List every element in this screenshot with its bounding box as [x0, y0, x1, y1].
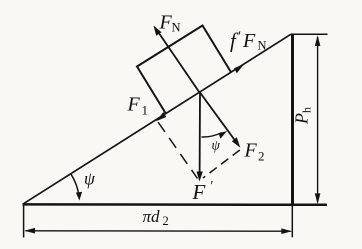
triangle base: [23, 203, 328, 206]
block on incline: [137, 26, 231, 114]
svg-text:F: F: [159, 12, 173, 34]
top extension line: [291, 33, 328, 35]
left extension line: [23, 203, 25, 238]
svg-text:N: N: [258, 39, 267, 53]
force F_N arrow: [154, 26, 200, 93]
force F' arrow (vertical down): [197, 93, 203, 182]
svg-text:h: h: [300, 107, 314, 113]
svg-text:1: 1: [142, 103, 149, 118]
svg-text:F: F: [127, 94, 141, 116]
friction force f'F_N arrowhead on incline: [234, 64, 244, 73]
svg-text:F: F: [242, 30, 256, 52]
force F1 arrowhead on incline (down-left): [156, 112, 166, 121]
dimension pi d2 horizontal with arrows: [24, 228, 292, 234]
right extension line: [291, 205, 293, 237]
svg-text:F: F: [244, 140, 258, 162]
dimension P_h vertical with arrows: [315, 35, 321, 204]
svg-text:P: P: [292, 113, 312, 125]
dashed parallelogram side from F2 tip to F' tip: [203, 150, 240, 178]
incline hypotenuse: [24, 34, 292, 204]
svg-text:2: 2: [258, 149, 265, 164]
svg-text:F: F: [192, 180, 206, 204]
svg-text:′: ′: [210, 179, 214, 194]
triangle right side (thick vertical): [291, 34, 294, 206]
svg-text:N: N: [172, 21, 181, 35]
angle arc psi at left vertex: [71, 174, 82, 201]
svg-text:2: 2: [163, 214, 169, 228]
dashed parallelogram side from F1 tip to F' tip: [158, 122, 198, 179]
svg-text:ψ: ψ: [212, 138, 221, 153]
svg-text:πd: πd: [143, 207, 161, 226]
angle arc psi between F' and F2: [202, 131, 228, 139]
force F2 arrow (perpendicular into incline): [200, 93, 240, 148]
label P_h (rotated): [292, 107, 314, 125]
svg-text:ψ: ψ: [84, 169, 96, 189]
svg-text:′: ′: [237, 29, 241, 45]
